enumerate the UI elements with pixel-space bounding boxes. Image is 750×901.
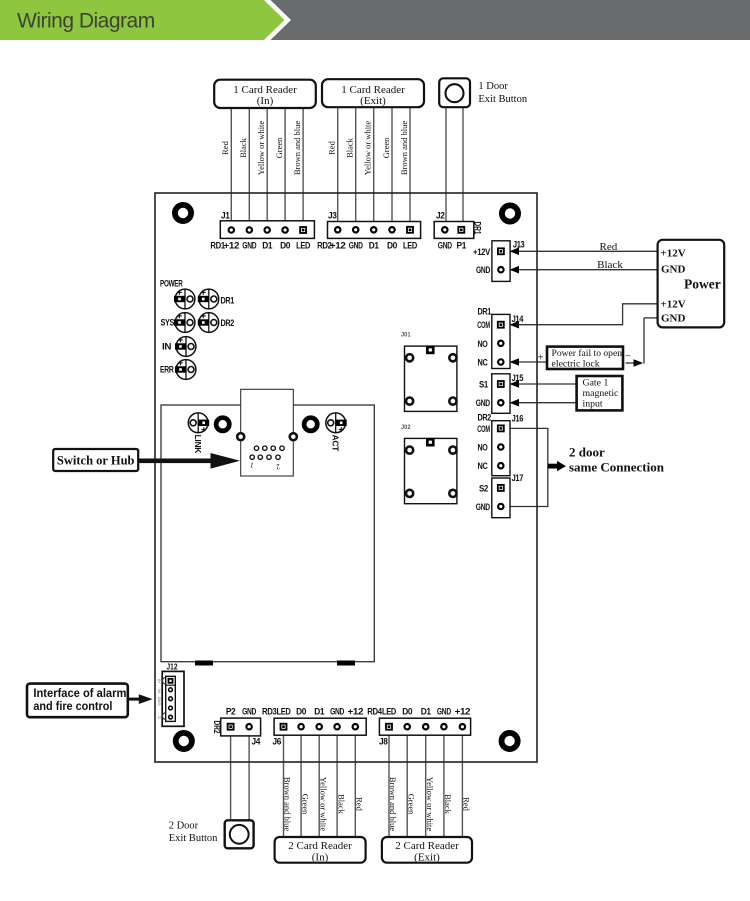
- svg-text:GND: GND: [476, 265, 490, 276]
- svg-text:LED: LED: [403, 241, 417, 252]
- svg-text:Switch or Hub: Switch or Hub: [57, 454, 135, 468]
- svg-text:magnetic: magnetic: [583, 388, 620, 399]
- svg-text:Brown and blue: Brown and blue: [292, 121, 302, 176]
- svg-text:GND: GND: [242, 241, 256, 252]
- svg-text:RD4: RD4: [367, 707, 382, 718]
- svg-text:S2: S2: [479, 483, 488, 494]
- svg-text:1 Door: 1 Door: [478, 81, 508, 92]
- svg-text:same Connection: same Connection: [569, 460, 665, 475]
- svg-text:SYS: SYS: [161, 318, 175, 329]
- svg-text:GND: GND: [156, 696, 161, 705]
- svg-text:J14: J14: [512, 314, 524, 324]
- svg-text:2 Card Reader: 2 Card Reader: [288, 840, 352, 852]
- svg-text:Black: Black: [238, 137, 248, 158]
- svg-text:ACT: ACT: [331, 435, 341, 453]
- svg-text:Red: Red: [600, 241, 618, 253]
- svg-text:GND: GND: [438, 241, 452, 252]
- svg-text:NO: NO: [478, 443, 488, 454]
- svg-text:+12: +12: [224, 241, 240, 252]
- svg-text:Green: Green: [274, 137, 284, 159]
- svg-text:GND: GND: [242, 707, 256, 718]
- svg-text:Black: Black: [597, 259, 623, 271]
- svg-text:GND: GND: [349, 241, 363, 252]
- svg-text:Red: Red: [220, 140, 230, 154]
- svg-text:(In): (In): [257, 95, 274, 107]
- svg-text:LINK: LINK: [193, 435, 203, 455]
- svg-text:+12: +12: [330, 241, 346, 252]
- svg-text:GND: GND: [661, 313, 686, 325]
- svg-text:Yellow or white: Yellow or white: [425, 777, 435, 832]
- svg-text:Exit Button: Exit Button: [169, 833, 218, 844]
- svg-text:Gate 1: Gate 1: [583, 378, 609, 389]
- svg-text:D0: D0: [280, 241, 290, 252]
- svg-text:D1: D1: [314, 707, 325, 718]
- svg-text:Black: Black: [336, 794, 346, 815]
- svg-text:LED: LED: [296, 241, 310, 252]
- svg-text:NC: NC: [478, 358, 488, 369]
- svg-text:and fire control: and fire control: [33, 701, 112, 713]
- svg-text:Power: Power: [684, 277, 721, 292]
- svg-text:D0: D0: [296, 707, 306, 718]
- svg-text:Yellow or white: Yellow or white: [256, 121, 266, 176]
- svg-text:S1: S1: [479, 380, 489, 391]
- svg-text:+5: +5: [156, 678, 161, 683]
- svg-text:Brown and blue: Brown and blue: [283, 777, 293, 832]
- svg-text:DR1: DR1: [478, 307, 492, 318]
- svg-text:C: C: [156, 715, 161, 718]
- svg-text:Interface of alarm: Interface of alarm: [33, 688, 126, 700]
- svg-text:2 Door: 2 Door: [169, 820, 199, 831]
- svg-text:COM: COM: [477, 320, 490, 331]
- svg-text:J6: J6: [273, 737, 282, 747]
- svg-text:GND: GND: [437, 707, 451, 718]
- svg-text:+: +: [537, 351, 543, 363]
- svg-text:DR1: DR1: [472, 222, 482, 235]
- svg-text:J3: J3: [328, 210, 337, 220]
- svg-text:Exit Button: Exit Button: [478, 94, 527, 105]
- svg-text:NC: NC: [478, 461, 488, 472]
- svg-text:D0: D0: [402, 707, 412, 718]
- svg-text:ERR: ERR: [160, 365, 174, 376]
- svg-text:Green: Green: [406, 794, 416, 816]
- svg-text:Brown and blue: Brown and blue: [399, 121, 409, 176]
- svg-text:1 Card Reader: 1 Card Reader: [341, 84, 405, 96]
- svg-text:1 Card Reader: 1 Card Reader: [233, 84, 297, 96]
- svg-text:Wiring Diagram: Wiring Diagram: [17, 10, 155, 33]
- svg-text:GND: GND: [330, 707, 344, 718]
- svg-text:Red: Red: [462, 797, 472, 811]
- svg-text:DR2: DR2: [221, 318, 235, 329]
- svg-text:POWER: POWER: [160, 279, 183, 290]
- svg-text:−: −: [625, 351, 631, 363]
- svg-text:(Exit): (Exit): [414, 851, 440, 863]
- svg-text:IN: IN: [162, 342, 172, 353]
- svg-text:D1: D1: [421, 707, 432, 718]
- svg-text:Black: Black: [443, 794, 453, 815]
- svg-text:DR2: DR2: [212, 721, 222, 734]
- svg-text:input: input: [583, 398, 603, 409]
- svg-text:+12V: +12V: [473, 247, 491, 258]
- svg-text:GND: GND: [476, 398, 490, 409]
- svg-text:Yellow or white: Yellow or white: [318, 777, 328, 832]
- svg-text:J01: J01: [401, 332, 411, 339]
- svg-text:LED: LED: [382, 707, 396, 718]
- svg-text:2 Card Reader: 2 Card Reader: [395, 840, 459, 852]
- svg-text:Brown and blue: Brown and blue: [388, 777, 398, 832]
- svg-text:(In): (In): [312, 851, 329, 863]
- svg-text:RD3: RD3: [262, 707, 277, 718]
- svg-text:J13: J13: [513, 239, 525, 249]
- svg-text:COM: COM: [477, 424, 490, 435]
- svg-text:+12V: +12V: [661, 299, 686, 311]
- svg-text:GND: GND: [476, 502, 490, 513]
- svg-text:2 door: 2 door: [569, 445, 605, 460]
- svg-text:J12: J12: [167, 662, 178, 671]
- svg-text:Green: Green: [300, 794, 310, 816]
- svg-text:P1: P1: [457, 241, 467, 252]
- svg-text:J15: J15: [512, 373, 524, 383]
- svg-text:electric lock: electric lock: [552, 358, 600, 369]
- svg-text:(Exit): (Exit): [360, 95, 386, 107]
- svg-text:Green: Green: [381, 137, 391, 159]
- svg-text:J1: J1: [221, 210, 230, 220]
- svg-text:LED: LED: [277, 707, 291, 718]
- svg-text:DR1: DR1: [221, 296, 235, 307]
- svg-text:+12: +12: [455, 707, 471, 718]
- svg-text:D0: D0: [387, 241, 397, 252]
- svg-text:J8: J8: [379, 737, 388, 747]
- svg-text:DR2: DR2: [478, 412, 492, 423]
- svg-text:+12: +12: [348, 707, 364, 718]
- svg-text:J02: J02: [401, 424, 411, 431]
- svg-text:GND: GND: [661, 264, 686, 276]
- svg-text:J16: J16: [512, 414, 524, 424]
- svg-text:+12V: +12V: [661, 248, 686, 260]
- svg-text:P2: P2: [226, 707, 236, 718]
- svg-text:J2: J2: [436, 210, 445, 220]
- svg-text:Power fail to open: Power fail to open: [552, 348, 623, 359]
- svg-text:Red: Red: [355, 797, 365, 811]
- svg-text:IN: IN: [156, 689, 161, 693]
- svg-text:Black: Black: [345, 137, 355, 158]
- svg-text:1: 1: [250, 461, 254, 470]
- svg-text:D1: D1: [262, 241, 273, 252]
- svg-text:Yellow or white: Yellow or white: [363, 121, 373, 176]
- svg-text:NO: NO: [478, 339, 488, 350]
- svg-text:J17: J17: [512, 473, 524, 483]
- svg-text:Red: Red: [327, 140, 337, 154]
- svg-text:D1: D1: [369, 241, 380, 252]
- svg-text:J4: J4: [252, 737, 261, 747]
